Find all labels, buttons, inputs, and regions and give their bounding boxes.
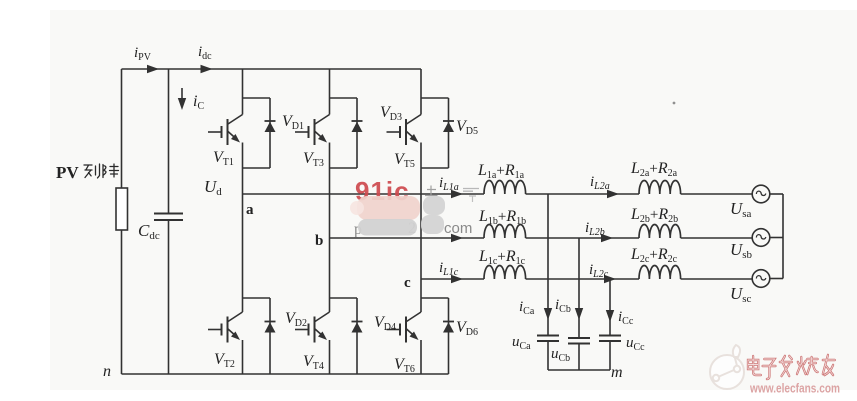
svg-text:L2b+R2b: L2b+R2b — [630, 206, 678, 225]
wire: freewheel branch of VD6 — [421, 297, 449, 299]
current arrow idc — [201, 65, 213, 73]
svg-text:iPV: iPV — [134, 45, 152, 63]
svg-text:uCc: uCc — [626, 335, 645, 353]
svg-text:VD2: VD2 — [285, 310, 307, 329]
current arrow iL2a — [607, 190, 619, 198]
svg-text:L2c+R2c: L2c+R2c — [630, 246, 678, 265]
svg-text:www.elecfans.com: www.elecfans.com — [749, 382, 840, 396]
wire: PV branch left vertical — [121, 69, 123, 188]
watermark grey glyph fragment — [425, 186, 438, 196]
inductor L1b — [484, 224, 526, 238]
svg-text:L1b+R1b: L1b+R1b — [478, 208, 526, 227]
svg-text:idc: idc — [198, 44, 212, 62]
svg-text:iL2a: iL2a — [590, 174, 610, 192]
svg-text:L1c+R1c: L1c+R1c — [478, 248, 526, 267]
wire: phase b line — [330, 237, 485, 239]
svg-text:VT1: VT1 — [213, 149, 234, 168]
svg-text:VT6: VT6 — [394, 356, 415, 375]
inductor L1c — [484, 265, 526, 279]
current arrow iC — [181, 88, 183, 104]
wire — [681, 237, 753, 239]
wire: top DC rail — [122, 68, 422, 70]
svg-text:Usb: Usb — [730, 240, 753, 261]
wire: freewheel loop of VD3 — [330, 97, 358, 99]
wire — [681, 278, 753, 280]
watermark grey glyph fragments over phase a — [463, 189, 479, 192]
svg-text:iL1c: iL1c — [439, 260, 459, 278]
wire: freewheel loop of VD5 — [421, 97, 449, 99]
svg-text:uCa: uCa — [512, 334, 531, 352]
wire: phase a line — [243, 193, 485, 195]
diode VD1 — [265, 121, 276, 132]
AC source Usc — [752, 270, 770, 288]
AC source Usb — [752, 229, 770, 247]
wire: leg 3 vertical — [420, 69, 422, 115]
current arrow iL2c — [604, 275, 616, 283]
current arrow iL1c — [451, 275, 463, 283]
diode VD2 — [265, 322, 276, 333]
wire: freewheel loop of VD1 — [243, 97, 271, 99]
wire: DC-link capacitor branch — [168, 69, 170, 214]
watermark pink blob — [357, 196, 420, 220]
svg-text:iL1a: iL1a — [439, 175, 459, 193]
AC source Usa — [752, 185, 770, 203]
wire: bottom DC rail (node n) — [122, 373, 449, 375]
svg-text:Usc: Usc — [730, 284, 752, 305]
elecfans hanzi 电子发烧友 (red outline, white core) — [748, 355, 835, 379]
svg-text:VT3: VT3 — [303, 150, 324, 169]
svg-text:VT4: VT4 — [303, 353, 324, 372]
current arrow iCb — [575, 308, 583, 320]
svg-text:uCb: uCb — [551, 346, 570, 364]
transistor VT1 — [208, 115, 243, 146]
svg-text:iCc: iCc — [618, 309, 634, 327]
current arrow iCc — [606, 310, 614, 322]
svg-text:b: b — [315, 233, 323, 249]
svg-text:VD5: VD5 — [456, 118, 478, 137]
wire: freewheel branch of VD4 — [330, 297, 358, 299]
svg-text:VD3: VD3 — [380, 104, 402, 123]
capacitor Cdc plates — [154, 213, 183, 215]
wire: phase b to grid — [526, 237, 639, 239]
svg-text:Cdc: Cdc — [138, 221, 160, 242]
svg-text:VD1: VD1 — [282, 113, 304, 132]
svg-text:c: c — [404, 275, 411, 291]
PV array source rectangle — [116, 188, 128, 230]
current arrow iL1a — [451, 190, 463, 198]
svg-text:iL2c: iL2c — [589, 262, 609, 280]
svg-text:iCb: iCb — [555, 297, 571, 315]
svg-text:L1a+R1a: L1a+R1a — [477, 162, 525, 181]
svg-text:VT2: VT2 — [214, 351, 235, 370]
inductor L2b — [639, 224, 681, 238]
capacitor Ca branch — [547, 194, 549, 336]
wire: phase a to grid — [526, 193, 639, 195]
current arrow iCa — [544, 308, 552, 320]
wire: phase c to grid — [526, 278, 639, 280]
diode VD4 — [352, 322, 363, 333]
svg-text:n: n — [103, 363, 111, 380]
wire: leg 1 vertical — [242, 69, 244, 115]
transistor VT4 — [295, 312, 330, 343]
capacitor Cc branch — [609, 279, 611, 336]
wire: leg 2 vertical — [329, 69, 331, 115]
capacitor Cb branch — [578, 238, 580, 338]
svg-text:Ud: Ud — [204, 177, 222, 198]
inductor L1a — [484, 180, 526, 194]
transistor VT3 — [295, 115, 330, 146]
wire: capacitor common rail (node m) — [548, 369, 610, 371]
transistor VT2 — [208, 312, 243, 343]
svg-text:VD6: VD6 — [456, 319, 478, 338]
svg-text:iL2b: iL2b — [585, 220, 605, 238]
svg-text:a: a — [246, 202, 254, 218]
wire: phase c line — [421, 278, 484, 280]
transistor VT6 — [387, 312, 422, 343]
wire — [681, 193, 753, 195]
svg-text:m: m — [611, 364, 623, 381]
current arrow iL1b — [451, 234, 463, 242]
svg-text:com: com — [444, 220, 472, 237]
svg-text:iCa: iCa — [519, 299, 535, 317]
svg-text:Usa: Usa — [730, 199, 752, 220]
elecfans logo circle — [710, 345, 744, 389]
svg-text:iC: iC — [193, 93, 204, 112]
transistor VT5 — [387, 115, 422, 146]
inductor L2c — [639, 265, 681, 279]
stray mark — [673, 102, 676, 105]
wire: freewheel branch of VD2 — [243, 297, 271, 299]
svg-text:L2a+R2a: L2a+R2a — [630, 160, 678, 179]
svg-text:PV: PV — [56, 163, 79, 182]
inductor L2a — [639, 180, 681, 194]
diode VD5 — [443, 121, 454, 132]
diode VD3 — [352, 121, 363, 132]
svg-text:VD4: VD4 — [374, 314, 396, 333]
wire: right grid rail — [770, 193, 783, 195]
current arrow iL2b — [601, 234, 613, 242]
svg-text:VT5: VT5 — [394, 151, 415, 170]
current arrow iPV — [147, 65, 159, 73]
diode VD6 — [443, 322, 454, 333]
